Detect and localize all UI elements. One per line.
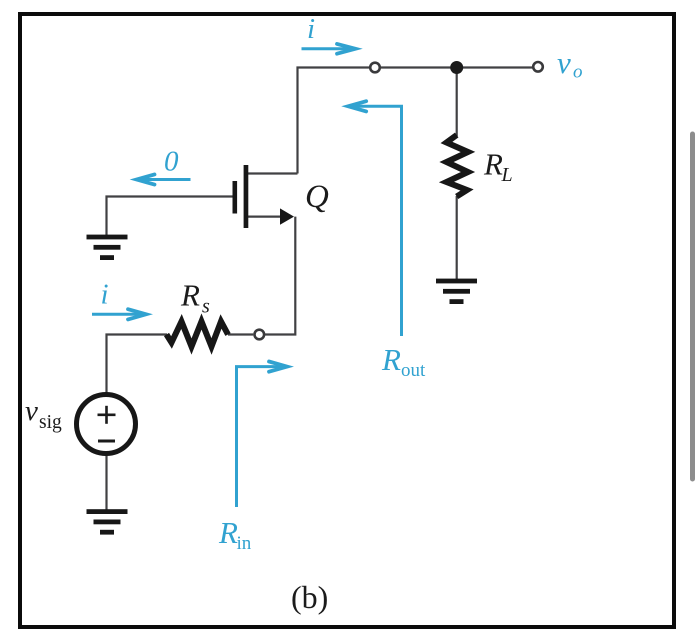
resistor RL xyxy=(447,135,469,197)
svg-text:out: out xyxy=(401,360,426,381)
svg-text:(b): (b) xyxy=(291,579,328,615)
wire: output net (top horizontal with drain riser) xyxy=(298,68,537,174)
node: open circle at input xyxy=(254,330,264,340)
v_sig minus sign xyxy=(98,440,115,443)
wire: input node to Rs xyxy=(228,333,253,335)
terminal v_o (open circle) xyxy=(533,62,543,72)
svg-text:L: L xyxy=(501,164,513,186)
wire: source lead xyxy=(248,216,282,218)
wire: source down to input node xyxy=(265,217,295,335)
wire: drain lead xyxy=(248,172,298,174)
ground (v_sig) xyxy=(87,509,128,534)
svg-text:Q: Q xyxy=(305,179,329,215)
wire: vsig to ground xyxy=(105,454,107,510)
arrow R_out xyxy=(348,101,401,336)
ground (R_L) xyxy=(436,279,477,304)
svg-text:sig: sig xyxy=(39,412,62,433)
svg-text:i: i xyxy=(101,279,109,311)
arrow R_in xyxy=(237,362,288,508)
svg-text:0: 0 xyxy=(164,146,179,178)
wire: junction down to RL xyxy=(456,68,458,137)
node: open circle on output wire xyxy=(370,63,380,73)
current arrow i (top) xyxy=(302,44,356,54)
svg-text:R: R xyxy=(180,278,200,313)
transistor Q gate bar xyxy=(233,181,238,214)
transistor Q source arrowhead xyxy=(280,208,294,224)
current arrow 0 (gate) xyxy=(137,174,191,184)
svg-text:s: s xyxy=(202,296,210,318)
wire: gate to ground xyxy=(107,197,233,236)
svg-text:i: i xyxy=(307,13,315,45)
svg-text:R: R xyxy=(483,147,503,182)
svg-text:o: o xyxy=(573,62,583,83)
svg-text:v: v xyxy=(25,395,38,427)
wire: Rs to vsig xyxy=(107,335,168,394)
transistor Q channel bar xyxy=(244,165,249,228)
wire: RL to ground xyxy=(456,196,458,280)
scrollbar xyxy=(690,132,695,482)
v_sig plus sign xyxy=(98,413,116,416)
source v_sig circle xyxy=(77,395,136,454)
ground (gate) xyxy=(87,235,128,260)
svg-text:R: R xyxy=(381,342,401,377)
svg-text:v: v xyxy=(557,45,571,80)
svg-text:R: R xyxy=(218,515,238,550)
resistor Rs xyxy=(167,322,229,347)
junction dot xyxy=(450,61,463,74)
current arrow i (input) xyxy=(92,309,146,319)
svg-text:in: in xyxy=(237,533,252,554)
